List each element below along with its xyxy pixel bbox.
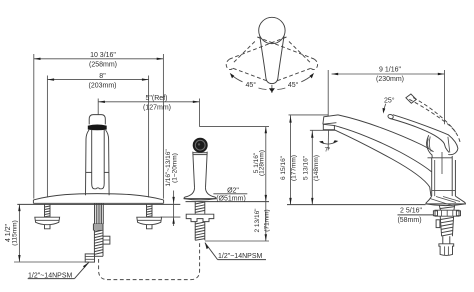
aerator step: [323, 124, 334, 129]
svg-text:9 1/16": 9 1/16": [379, 67, 401, 74]
svg-text:(230mm): (230mm): [376, 76, 404, 83]
label 1/2~14NPSM right: [205, 243, 266, 261]
svg-text:2 13/16": 2 13/16": [254, 208, 261, 233]
left faucet inner spout U: [92, 130, 105, 189]
ext right of 9 1/16: [444, 70, 446, 124]
sprayer locknut: [186, 214, 214, 221]
svg-text:(177mm): (177mm): [290, 155, 297, 181]
deck plate left end cap: [32, 200, 34, 203]
deck plate top surface: [33, 194, 163, 200]
left faucet side joint ticks: [86, 171, 92, 173]
ext line left of 8: [46, 76, 48, 198]
svg-text:(148mm): (148mm): [313, 155, 320, 181]
svg-text:8": 8": [99, 73, 106, 80]
sprayer shank threads upper: [195, 201, 205, 214]
ext line left of 10 3/16: [33, 54, 35, 199]
right faucet: ext at aerator bottom: [310, 129, 335, 131]
right faucet shank threads: [440, 216, 453, 236]
svg-text:10 3/16": 10 3/16": [90, 52, 116, 59]
svg-text:(115mm): (115mm): [11, 220, 18, 246]
solid handle taper: [260, 36, 284, 84]
aerator swivel indicator line: [327, 130, 329, 150]
svg-text:5 13/16": 5 13/16": [303, 155, 310, 180]
right faucet aerator tip: [323, 115, 338, 124]
right mounting bolt rod: [147, 204, 153, 217]
locknut right faucet: [435, 210, 459, 216]
spout bottom edge: [334, 130, 431, 196]
body column: [431, 158, 433, 196]
raised handle tip block: [406, 94, 416, 103]
sprayer shank threads lower: [195, 222, 205, 241]
handle hub left edge: [427, 135, 433, 157]
svg-text:(1~20mm): (1~20mm): [172, 153, 179, 183]
dim 10 3/16 line: [34, 52, 164, 69]
dashed handle right cap: [311, 59, 318, 70]
dim 9 1/16: [332, 67, 445, 83]
right faucet shank threads upper: [439, 206, 454, 211]
bottom ext at sprayer shank: [205, 240, 269, 242]
left faucet body outline: [86, 130, 90, 195]
left faucet handle knob: [89, 115, 105, 125]
swivel smile arc: [320, 141, 337, 144]
right faucet handle blade bottom edge: [390, 119, 449, 153]
svg-text:2 5/16": 2 5/16": [400, 208, 422, 215]
dim 2 5/16: [397, 208, 433, 224]
sprayer hose nipple on shank: [103, 236, 110, 244]
countertop line left assembly: [17, 203, 180, 205]
svg-text:(127mm): (127mm): [143, 104, 171, 111]
faucet shank tubes: [95, 203, 104, 224]
sprayer base flare: [184, 188, 216, 199]
sprayer body: [193, 152, 207, 188]
dim 5 1/16 vertical: [253, 127, 267, 202]
base bell: [426, 196, 466, 204]
ext line faucet center: [97, 99, 99, 115]
right bolt lower rod: [147, 225, 153, 229]
svg-text:45°: 45°: [288, 81, 299, 89]
svg-text:5"(Ref): 5"(Ref): [146, 95, 168, 102]
dashed handle rotated right crossing edge: [257, 37, 314, 59]
right faucet handle blade top edge with nose curl: [393, 115, 458, 155]
deck plate bottom: [33, 202, 163, 204]
dim 5 (Ref) line: [98, 95, 199, 112]
left bolt lower rod: [45, 225, 51, 229]
left mounting bolt rod: [45, 204, 51, 217]
supply elbow at shank bottom: [85, 254, 94, 262]
sprayer head: [193, 138, 208, 153]
dashed hose loop: [99, 241, 200, 279]
handle hub seam: [448, 137, 450, 153]
dashed handle left cap: [226, 59, 233, 70]
label 25 deg: [383, 97, 395, 114]
svg-text:6 15/16": 6 15/16": [280, 155, 287, 180]
dashed raised handle: [409, 99, 460, 144]
label dia 2in: [213, 187, 247, 202]
svg-text:(Ø51mm): (Ø51mm): [216, 195, 246, 202]
dim 8 line: [47, 73, 148, 90]
sprayer top ext line: [200, 126, 270, 128]
spout top edge: [338, 115, 434, 152]
svg-text:7°: 7°: [325, 148, 331, 154]
left 45 arc with arrow: [259, 88, 267, 90]
dashed handle right lower edge: [277, 68, 311, 81]
supply end nut: [439, 244, 454, 256]
shank side tab: [436, 220, 440, 228]
body neck line: [428, 157, 453, 159]
deck plate right end cap: [163, 200, 165, 203]
svg-text:(258mm): (258mm): [89, 62, 117, 69]
label 1/2~14NPSM left: [28, 262, 89, 279]
bottom ext line for 4 1/2: [14, 261, 89, 263]
dim 5 13/16 vertical: [303, 130, 320, 204]
svg-text:(128mm): (128mm): [259, 150, 266, 176]
left wing nut: [35, 217, 60, 225]
dashed handle left lower edge: [233, 68, 267, 81]
dim 6 15/16 vertical: [280, 115, 297, 204]
sprayer base bottom: [184, 199, 216, 200]
right faucet: ext top 6 15/16: [289, 114, 329, 116]
ext line sprayer center: [199, 99, 201, 127]
dashed handle rotated left steep edge: [233, 42, 255, 64]
solid handle top view bulb: [259, 17, 285, 43]
faucet shank threads: [94, 230, 103, 256]
svg-text:25°: 25°: [384, 97, 395, 105]
shank top nut: [93, 224, 103, 230]
bottom center pivot arrow: [271, 85, 273, 93]
right 45 arc with arrow: [277, 88, 285, 90]
svg-text:(203mm): (203mm): [88, 82, 116, 89]
right faucet countertop: [287, 204, 426, 206]
svg-text:(71mm): (71mm): [264, 209, 271, 231]
svg-text:45°: 45°: [246, 81, 257, 89]
dim 1/16~13/16 rotated texts: [161, 149, 181, 226]
45 degree handle rotation diagram: [226, 17, 317, 93]
right faucet handle tip cap: [387, 114, 394, 120]
left faucet lever band (dark): [88, 125, 106, 130]
dashed handle rotated right steep edge: [289, 42, 311, 64]
lower rod: [443, 236, 450, 244]
svg-text:(58mm): (58mm): [397, 217, 421, 224]
right wing nut: [137, 217, 162, 225]
dashed handle rotated left crossing edge: [230, 37, 287, 59]
dim 4 1/2 vertical: [5, 204, 21, 261]
ext left of 9 1/16: [327, 70, 329, 116]
spout mid edge: [334, 126, 431, 172]
ext line right of 10 3/16: [162, 54, 164, 199]
ext line right of 8: [148, 76, 150, 198]
dim 2 13/16 vertical: [254, 202, 271, 241]
